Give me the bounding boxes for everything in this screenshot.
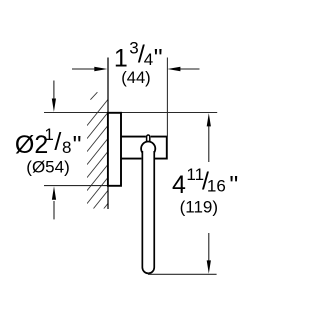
dimension text: 4 11/16 inch bbox=[172, 165, 238, 200]
top dimension line left + arrow bbox=[72, 67, 107, 71]
bottom reference line of circle dim (y=185.6) bbox=[44, 185, 110, 187]
svg-text:(119): (119) bbox=[180, 197, 218, 216]
svg-text:": " bbox=[154, 45, 163, 73]
svg-text:8: 8 bbox=[62, 138, 71, 157]
right dim up arrow bbox=[207, 113, 211, 162]
wall line bbox=[107, 58, 109, 210]
right dim down arrow bbox=[207, 233, 211, 274]
top dimension line right + arrow bbox=[167, 67, 199, 71]
pivot ball bbox=[141, 142, 155, 156]
circle dim up arrow bbox=[52, 186, 56, 219]
svg-text:4: 4 bbox=[144, 50, 153, 69]
svg-text:Ø2: Ø2 bbox=[15, 131, 48, 159]
svg-text:(Ø54): (Ø54) bbox=[26, 157, 69, 176]
svg-text:/: / bbox=[54, 128, 61, 156]
hanging arm tube bbox=[142, 151, 154, 273]
extension line right of top dimension bbox=[166, 58, 168, 137]
bottom reference line (arm bottom, y=274.3) bbox=[148, 273, 217, 275]
dimension text: 1 3/4 inch bbox=[114, 39, 163, 73]
wall plate (rosette, side view) bbox=[108, 113, 121, 186]
circle dim down arrow bbox=[52, 81, 56, 112]
svg-text:": " bbox=[73, 132, 82, 160]
dimension text: diameter 2 1/8 inch bbox=[15, 125, 82, 160]
svg-text:(44): (44) bbox=[121, 68, 151, 87]
wall hatching bbox=[87, 92, 108, 229]
top reference line (plate top, y=112.5) bbox=[44, 112, 217, 114]
svg-text:16: 16 bbox=[207, 177, 226, 196]
svg-text:1: 1 bbox=[44, 125, 53, 144]
svg-text:": " bbox=[229, 172, 238, 200]
holder body box bbox=[121, 137, 167, 159]
svg-text:4: 4 bbox=[172, 171, 186, 199]
pivot stem bbox=[147, 135, 150, 142]
